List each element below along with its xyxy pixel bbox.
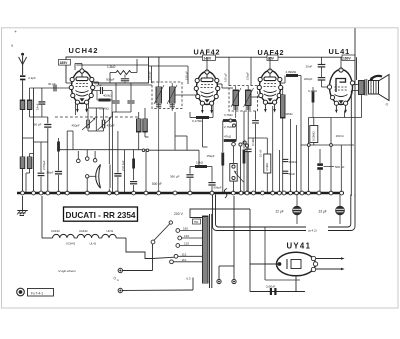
wire — [356, 57, 358, 80]
wire screen divider — [212, 105, 214, 118]
label 85V — [267, 55, 278, 60]
wire — [112, 112, 114, 192]
resistor 100ohm with cap — [133, 150, 135, 159]
cathode resistor 160ohm — [329, 105, 331, 118]
tube UY41 — [277, 252, 316, 276]
IFT1 winding secondary — [170, 87, 176, 103]
wire heater to tap — [153, 257, 175, 258]
speaker output transformer — [359, 81, 365, 95]
filter box inner — [216, 195, 351, 228]
electrolytic 33uF — [339, 194, 341, 206]
svg-text:6,3: 6,3 — [187, 277, 191, 281]
electrolytic 500uF — [317, 163, 323, 166]
svg-text:200 V: 200 V — [174, 212, 184, 216]
wire — [250, 263, 276, 265]
svg-text:160: 160 — [183, 227, 188, 231]
wire mains lower — [123, 289, 194, 292]
svg-text:140: 140 — [184, 234, 189, 238]
wire plate top — [340, 57, 342, 69]
resistor right of pot — [243, 111, 245, 149]
svg-text:UL41: UL41 — [90, 242, 97, 246]
wire rail 66 — [149, 65, 189, 67]
grid box UCH42 185V — [66, 57, 149, 83]
svg-text:DUCATI - RR 2354: DUCATI - RR 2354 — [66, 211, 136, 220]
heater chain bumps — [42, 237, 53, 239]
UY41 enclosure edge — [264, 227, 266, 281]
wire AGC elbow — [175, 135, 187, 137]
svg-text:4,99MΩ: 4,99MΩ — [286, 70, 297, 74]
svg-text:2×50µF: 2×50µF — [42, 160, 46, 170]
wire — [228, 57, 230, 85]
wire grid UCH42 — [30, 87, 72, 89]
mains terminal lower — [118, 288, 122, 292]
speaker magnet arrow — [371, 76, 382, 79]
svg-text:0,1 MΩ: 0,1 MΩ — [99, 107, 110, 111]
label a 4.2 — [306, 226, 328, 233]
AGC line — [59, 149, 147, 151]
resistor 0,1M rotated label — [255, 111, 257, 120]
antenna coil secondary — [20, 157, 25, 169]
tube UAF42 second — [257, 69, 283, 113]
wire — [108, 117, 110, 164]
svg-text:50 pF: 50 pF — [34, 122, 42, 126]
capacitor on diode line — [247, 138, 249, 149]
cap 50uF — [117, 131, 119, 173]
wire AGC — [145, 150, 147, 192]
svg-text:165 µF: 165 µF — [224, 73, 228, 82]
boxed label 750 — [193, 219, 201, 224]
svg-text:UF41: UF41 — [107, 229, 114, 233]
wire screen — [88, 104, 90, 109]
svg-text:1,5kΩ: 1,5kΩ — [107, 65, 116, 69]
wire node line 145 — [301, 144, 354, 146]
svg-text:UAF42: UAF42 — [79, 229, 88, 233]
wire mains to arm — [152, 244, 154, 271]
wire grid UAF42a — [175, 94, 197, 96]
tap 125 — [176, 244, 180, 248]
svg-text:m: m — [117, 279, 119, 282]
svg-text:UY41: UY41 — [287, 242, 312, 251]
label 160V — [342, 55, 355, 60]
band switch contacts — [77, 159, 81, 163]
tap 140 — [178, 236, 182, 240]
padder caps under box — [115, 83, 117, 100]
bus junction nodes — [21, 191, 25, 195]
IFT2 interior caps — [233, 106, 238, 108]
IFT1 winding primary — [156, 87, 162, 103]
UY41 cathode pin — [278, 262, 282, 266]
wire — [109, 73, 111, 84]
svg-text:UAF42: UAF42 — [51, 229, 60, 233]
transformer core — [209, 214, 211, 288]
svg-text:33 µF: 33 µF — [319, 210, 327, 214]
wire — [22, 169, 24, 193]
filter box outer — [213, 195, 356, 231]
fuse box — [28, 289, 54, 297]
antenna — [21, 53, 23, 55]
resistor 0,25Mohm boxed — [313, 118, 315, 126]
svg-text:3,7MΩ: 3,7MΩ — [224, 113, 233, 117]
label 140V — [203, 55, 216, 60]
pilot lamp terminals — [217, 279, 221, 283]
IF transformer 2 dashed box — [229, 86, 258, 112]
svg-text:15kΩ: 15kΩ — [196, 161, 204, 165]
wire heater return — [126, 238, 153, 259]
svg-text:50nF: 50nF — [289, 172, 296, 176]
tone switch contacts — [239, 143, 242, 146]
volume potentiometer — [232, 142, 236, 146]
svg-text:185V: 185V — [60, 61, 69, 65]
svg-text:450pF: 450pF — [107, 124, 115, 128]
svg-text:200pF: 200pF — [304, 77, 313, 81]
wire top cap — [81, 64, 83, 69]
svg-text:(a 4.2): (a 4.2) — [308, 229, 317, 233]
wave trap transformer — [137, 119, 142, 132]
volume coil hatched — [281, 95, 286, 118]
svg-text:140V: 140V — [204, 57, 213, 61]
svg-text:10 nF: 10 nF — [259, 149, 263, 157]
wire — [235, 86, 237, 90]
voltage selector arm — [151, 240, 155, 244]
DUCATI RR 2354 label box — [64, 207, 138, 221]
speaker — [369, 81, 379, 95]
tap 160 — [176, 229, 180, 233]
wire — [206, 57, 208, 71]
capacitor antenna 2kpF — [22, 74, 24, 75]
wire grid — [326, 82, 330, 84]
svg-text:22 µF: 22 µF — [276, 210, 284, 214]
svg-text:0,5MΩ: 0,5MΩ — [265, 163, 269, 171]
wire plate to IFT1 — [93, 81, 99, 83]
wire rail right — [309, 117, 362, 119]
svg-text:UL41: UL41 — [329, 47, 351, 56]
wire 200V tap — [190, 209, 250, 218]
oscillator resistor and cap — [57, 142, 60, 152]
wire — [272, 106, 274, 192]
svg-text:500 pF: 500 pF — [152, 182, 162, 186]
svg-text:160 µF: 160 µF — [148, 71, 152, 80]
wire — [269, 57, 271, 70]
ground bus — [17, 192, 344, 195]
chassis ground symbol — [22, 196, 24, 211]
svg-text:30 pF: 30 pF — [48, 82, 56, 86]
UY41 anode pins — [311, 256, 315, 260]
wire grid left — [66, 82, 72, 84]
antenna coil transformer — [20, 100, 25, 110]
wire step — [23, 137, 34, 139]
wire plate arrows — [316, 258, 343, 260]
wire — [66, 131, 68, 192]
IFT2 arrows — [231, 88, 241, 107]
svg-text:450pF: 450pF — [72, 124, 80, 128]
capacitor 500pF — [124, 75, 126, 78]
IFT2 winding primary — [233, 90, 239, 106]
tap 115 — [174, 254, 178, 258]
svg-text:nf agli schemi: nf agli schemi — [58, 269, 76, 273]
svg-text:UCH42: UCH42 — [69, 46, 99, 55]
svg-text:85V: 85V — [268, 57, 275, 61]
svg-text:750: 750 — [194, 220, 199, 224]
wire — [330, 118, 332, 150]
tube UAF42 first — [194, 70, 220, 114]
IFT1 tuning arrows — [154, 85, 164, 104]
tuning capacitor variable — [96, 165, 101, 189]
wire grid UAF42b — [251, 96, 260, 98]
transformer bottom wires — [202, 283, 204, 288]
mains transformer primary winding — [203, 216, 209, 283]
svg-text:500 µF: 500 µF — [335, 165, 345, 169]
svg-text:Fu T-4-1: Fu T-4-1 — [31, 291, 43, 295]
svg-text:100kΩ: 100kΩ — [289, 160, 298, 164]
wire — [29, 95, 31, 100]
wire — [240, 146, 242, 192]
tap 110 — [170, 260, 174, 264]
svg-text:0,25MΩ: 0,25MΩ — [312, 132, 316, 141]
svg-text:20nF: 20nF — [306, 64, 313, 68]
svg-text:360 µF: 360 µF — [170, 175, 180, 179]
svg-text:400kΩ: 400kΩ — [103, 94, 112, 98]
svg-text:UCH42: UCH42 — [66, 242, 76, 246]
wire — [88, 107, 104, 109]
svg-text:15kpF: 15kpF — [207, 154, 215, 158]
tube UL41 — [330, 70, 353, 105]
svg-text:160V: 160V — [343, 57, 352, 61]
wire — [158, 83, 160, 87]
IFT2 winding secondary — [246, 90, 252, 106]
wire heater feed — [41, 196, 43, 238]
switch link dashed — [55, 116, 140, 118]
svg-text:50kpF: 50kpF — [214, 186, 222, 190]
svg-text:125: 125 — [184, 242, 189, 246]
wire loop over bus — [224, 189, 227, 199]
mains terminal upper — [118, 268, 122, 272]
svg-text:160 Ω: 160 Ω — [336, 134, 345, 138]
tone contacts small — [229, 119, 232, 122]
boxed resistor 0,5Mohm — [266, 138, 268, 154]
svg-text:47kΩ: 47kΩ — [224, 135, 232, 139]
IFT1 interior caps — [156, 104, 161, 106]
svg-text:110: 110 — [182, 258, 187, 262]
svg-text:2 kpF: 2 kpF — [28, 76, 36, 80]
svg-text:56kpF: 56kpF — [47, 171, 54, 174]
svg-text:115: 115 — [182, 253, 187, 257]
electrolytic 22uF — [296, 194, 298, 206]
wire HT to rectifier — [249, 209, 251, 292]
svg-text:15kpF: 15kpF — [246, 72, 250, 80]
IF transformer 1 dashed box — [152, 82, 182, 109]
svg-text:0,17MΩ: 0,17MΩ — [192, 119, 203, 123]
resistor below — [222, 141, 224, 153]
B+ rail — [137, 58, 149, 60]
svg-text:0,1MΩ: 0,1MΩ — [251, 138, 255, 146]
mains plug — [17, 288, 25, 296]
tube UCH42 — [69, 69, 95, 113]
wire UY41 bottom — [295, 276, 297, 292]
